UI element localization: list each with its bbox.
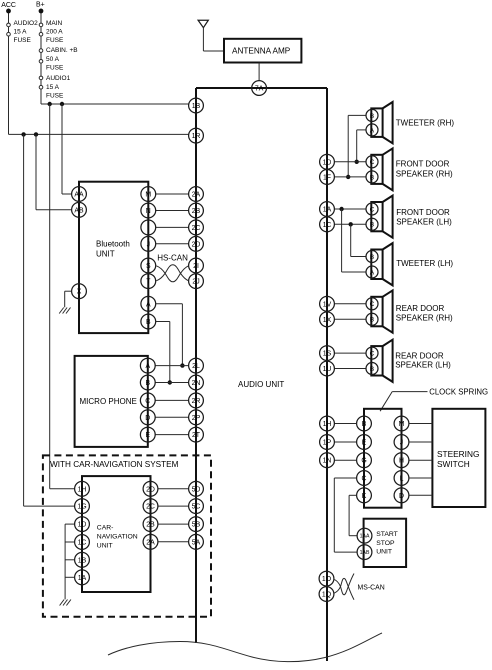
svg-text:1D: 1D [78, 522, 87, 529]
svg-text:STEERING: STEERING [437, 449, 479, 459]
svg-text:AUDIO2: AUDIO2 [14, 20, 39, 27]
svg-text:1H: 1H [78, 486, 87, 493]
svg-text:B: B [370, 174, 375, 181]
svg-text:L: L [400, 476, 404, 483]
svg-text:B: B [370, 222, 375, 229]
svg-text:B: B [146, 319, 151, 326]
svg-text:E: E [145, 432, 150, 439]
svg-text:K: K [362, 493, 367, 500]
svg-text:SPEAKER (RH): SPEAKER (RH) [396, 169, 453, 178]
svg-text:WITH CAR-NAVIGATION SYSTEM: WITH CAR-NAVIGATION SYSTEM [50, 460, 179, 469]
svg-text:STOP: STOP [376, 540, 395, 547]
svg-text:E: E [362, 440, 367, 447]
svg-text:1A: 1A [78, 575, 87, 582]
svg-text:2D: 2D [192, 241, 201, 248]
svg-text:5C: 5C [192, 504, 201, 511]
svg-text:1A: 1A [323, 207, 332, 214]
svg-text:SPEAKER (LH): SPEAKER (LH) [396, 218, 452, 227]
svg-text:ACC: ACC [1, 2, 16, 9]
svg-text:B: B [370, 317, 375, 324]
svg-text:AB: AB [74, 207, 84, 214]
svg-text:1V: 1V [323, 301, 332, 308]
svg-text:A: A [146, 301, 151, 308]
svg-text:2C: 2C [192, 225, 201, 232]
svg-text:1C: 1C [78, 540, 87, 547]
svg-text:1AB: 1AB [360, 550, 370, 556]
svg-text:C: C [145, 398, 150, 405]
svg-text:FRONT DOOR: FRONT DOOR [396, 208, 450, 217]
svg-text:2I: 2I [193, 263, 199, 270]
svg-text:1F: 1F [323, 174, 331, 181]
svg-text:1O: 1O [322, 576, 332, 583]
svg-text:B: B [362, 421, 367, 428]
svg-text:C: C [370, 351, 375, 358]
svg-text:1B: 1B [192, 103, 201, 110]
svg-text:2B: 2B [192, 208, 201, 215]
svg-text:D: D [399, 493, 404, 500]
svg-text:FUSE: FUSE [14, 37, 32, 44]
svg-text:B+: B+ [36, 2, 45, 9]
svg-text:5B: 5B [192, 522, 201, 529]
svg-text:2A: 2A [146, 539, 155, 546]
svg-text:A: A [370, 269, 375, 276]
svg-text:B: B [370, 254, 375, 261]
svg-text:2R: 2R [192, 398, 201, 405]
svg-text:CLOCK SPRING: CLOCK SPRING [429, 388, 488, 397]
svg-text:MS-CAN: MS-CAN [358, 585, 385, 592]
svg-text:B: B [145, 380, 150, 387]
svg-text:1H: 1H [323, 421, 332, 428]
svg-text:SPEAKER (RH): SPEAKER (RH) [396, 314, 453, 323]
svg-text:NAVIGATION: NAVIGATION [97, 534, 138, 541]
svg-text:1R: 1R [192, 133, 201, 140]
svg-text:5D: 5D [192, 486, 201, 493]
svg-text:2P: 2P [192, 415, 201, 422]
svg-text:MAIN: MAIN [46, 20, 63, 27]
svg-text:1X: 1X [323, 317, 332, 324]
svg-text:REAR DOOR: REAR DOOR [395, 352, 444, 361]
svg-text:B: B [370, 366, 375, 373]
svg-text:J: J [400, 440, 403, 447]
svg-text:1Q: 1Q [322, 592, 332, 599]
svg-text:CABIN. +B: CABIN. +B [46, 47, 78, 54]
svg-text:1C: 1C [323, 222, 332, 229]
svg-text:G: G [361, 458, 366, 465]
svg-text:50 A: 50 A [46, 56, 60, 63]
svg-text:1B: 1B [78, 557, 87, 564]
svg-text:C: C [370, 206, 375, 213]
svg-text:H: H [399, 458, 404, 465]
svg-text:5A: 5A [192, 539, 201, 546]
svg-text:2L: 2L [192, 363, 200, 370]
svg-text:1D: 1D [323, 159, 332, 166]
svg-text:S: S [146, 263, 151, 270]
svg-text:AUDIO1: AUDIO1 [46, 75, 71, 82]
svg-text:2B: 2B [146, 522, 155, 529]
svg-text:2J: 2J [192, 279, 199, 286]
svg-text:1P: 1P [323, 440, 332, 447]
svg-text:C: C [370, 159, 375, 166]
svg-text:SWITCH: SWITCH [437, 459, 470, 469]
svg-text:M: M [145, 192, 151, 199]
svg-text:B: B [370, 113, 375, 120]
svg-text:A: A [370, 127, 375, 134]
svg-text:FUSE: FUSE [46, 37, 64, 44]
svg-text:UNIT: UNIT [96, 249, 115, 258]
svg-text:200 A: 200 A [46, 29, 63, 36]
svg-text:N: N [146, 208, 151, 215]
svg-text:FRONT DOOR: FRONT DOOR [396, 160, 450, 169]
svg-text:15 A: 15 A [46, 84, 60, 91]
svg-text:2N: 2N [192, 380, 201, 387]
svg-text:M: M [399, 421, 405, 428]
svg-text:HS-CAN: HS-CAN [157, 254, 188, 263]
svg-text:D: D [145, 415, 150, 422]
svg-text:CAR-: CAR- [97, 525, 114, 532]
svg-text:C: C [370, 301, 375, 308]
svg-text:AUDIO UNIT: AUDIO UNIT [238, 380, 284, 389]
svg-text:1AA: 1AA [360, 534, 370, 540]
svg-text:1U: 1U [323, 366, 332, 373]
svg-text:15 A: 15 A [14, 29, 28, 36]
svg-text:2C: 2C [146, 504, 155, 511]
svg-text:SPEAKER (LH): SPEAKER (LH) [395, 361, 451, 370]
svg-text:UNIT: UNIT [97, 542, 113, 549]
svg-text:2T: 2T [192, 432, 201, 439]
svg-text:1G: 1G [77, 504, 86, 511]
svg-text:START: START [376, 531, 398, 538]
svg-text:UNIT: UNIT [376, 549, 392, 556]
svg-text:REAR DOOR: REAR DOOR [396, 304, 445, 313]
svg-text:MICRO PHONE: MICRO PHONE [80, 397, 137, 406]
svg-text:7A: 7A [255, 86, 264, 93]
svg-text:TWEETER (RH): TWEETER (RH) [396, 119, 455, 128]
svg-text:2A: 2A [192, 192, 201, 199]
svg-text:FUSE: FUSE [46, 65, 64, 72]
svg-text:AA: AA [74, 192, 84, 199]
svg-text:X: X [77, 289, 82, 296]
svg-text:1S: 1S [323, 351, 332, 358]
svg-text:Bluetooth: Bluetooth [96, 240, 130, 249]
svg-text:ANTENNA AMP: ANTENNA AMP [232, 47, 291, 56]
svg-text:J: J [147, 241, 150, 248]
svg-text:A: A [145, 363, 150, 370]
svg-text:C: C [362, 476, 367, 483]
svg-text:TWEETER (LH): TWEETER (LH) [396, 259, 453, 268]
svg-text:1N: 1N [323, 458, 332, 465]
svg-text:2D: 2D [146, 486, 155, 493]
svg-text:FUSE: FUSE [46, 93, 64, 100]
